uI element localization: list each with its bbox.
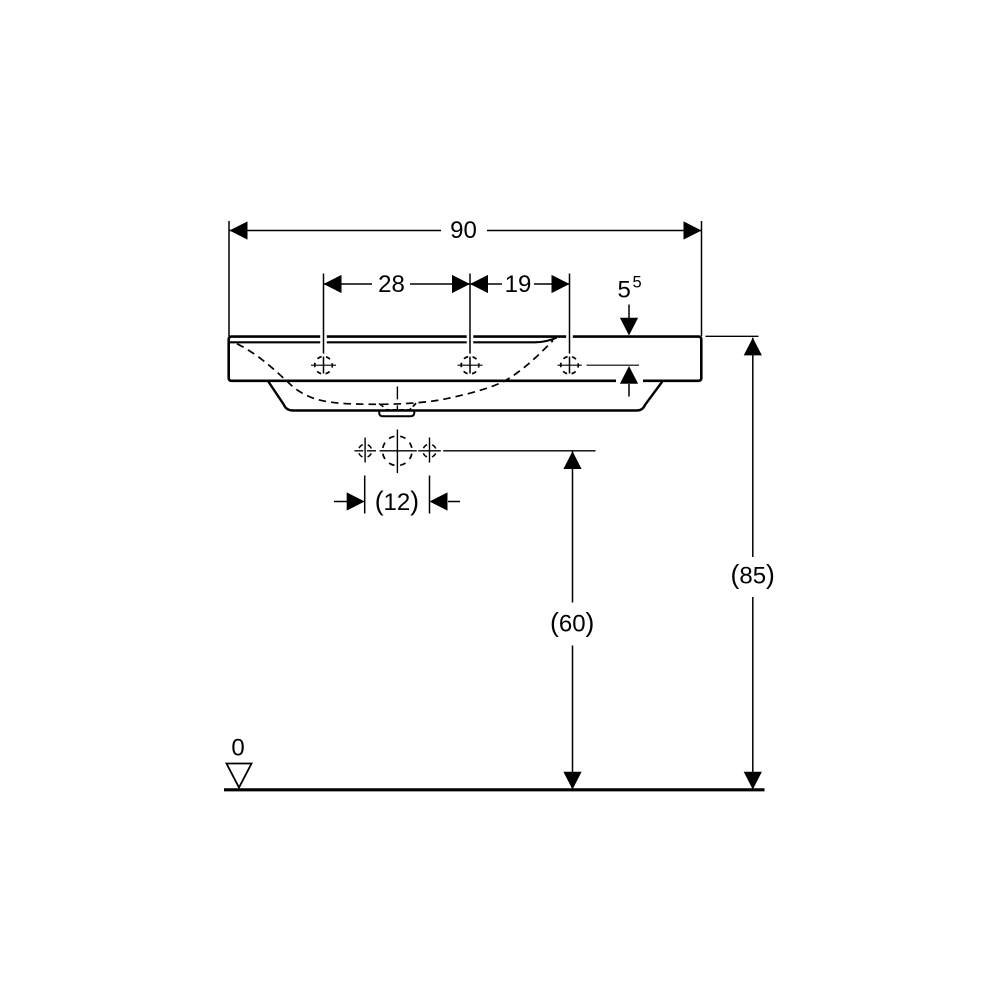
- dim 12 arrow left (points right): [347, 492, 365, 510]
- svg-text:90: 90: [450, 217, 477, 244]
- dim 19 arrow left (at center): [470, 275, 488, 293]
- fixing hole left: [364, 438, 366, 463]
- svg-text:0: 0: [231, 735, 244, 762]
- drain hole symbol circle: [383, 436, 413, 466]
- faucet hole 3 reference line to 5.5 dim: [558, 364, 640, 366]
- halo gaps where extension lines cross rim lines: [320, 335, 573, 344]
- dim 60 line lower: [572, 646, 574, 790]
- dim 85 arrow top: [744, 338, 762, 356]
- dim 12 extension line right: [429, 476, 431, 514]
- svg-text:28: 28: [378, 271, 405, 298]
- drain flange: [379, 411, 414, 416]
- dim 90 arrow right: [684, 221, 702, 239]
- drain dashed sump V: [379, 404, 388, 411]
- svg-text:5: 5: [633, 274, 642, 292]
- dim 5.5 lower arrow (up): [620, 366, 638, 384]
- fixing hole right: [429, 438, 431, 463]
- dim 60 line upper: [572, 451, 574, 602]
- faucet hole 1: [315, 356, 333, 374]
- floor line: [224, 788, 765, 791]
- dim 12 tail left: [334, 501, 347, 503]
- dim 85 reference line top: [706, 335, 759, 337]
- dim 12 extension line left: [364, 476, 366, 514]
- dim 28 arrow left: [324, 275, 342, 293]
- dim 60 arrow top: [563, 451, 581, 469]
- faucet hole 2: [461, 356, 479, 374]
- dim 90 extension line left: [228, 221, 230, 336]
- drain center line (in basin): [396, 387, 398, 410]
- dim 12 tail right: [448, 501, 460, 503]
- svg-text:19: 19: [505, 271, 532, 298]
- dim 60 arrow bottom: [563, 772, 581, 790]
- svg-text:5: 5: [618, 277, 631, 304]
- dim 19 line segments: [470, 283, 502, 285]
- drain horizontal center line to (60): [355, 450, 596, 452]
- dim 85 arrow bottom: [744, 772, 762, 790]
- dim 28 arrow right (at center): [452, 275, 470, 293]
- datum triangle: [227, 764, 252, 788]
- dim 90 line left segment: [230, 230, 442, 232]
- dim 19 extension line right (through hole 3): [569, 274, 571, 374]
- svg-text:(60): (60): [550, 608, 594, 638]
- dim 90 arrow left: [230, 221, 248, 239]
- dim 90 line right segment: [487, 230, 702, 232]
- dim 28 extension line left (through hole 1): [323, 274, 325, 374]
- faucet hole 3: [561, 356, 579, 374]
- basin inner rim edge: [230, 338, 557, 343]
- svg-text:(85): (85): [731, 560, 775, 590]
- dim 28 line segments: [324, 283, 373, 285]
- dim 85 line upper: [752, 338, 754, 557]
- basin bowl dashed curve: [237, 341, 553, 405]
- basin rim outline: [229, 337, 702, 381]
- dim 12 arrow right (points left): [430, 492, 448, 510]
- drain hole vertical center line: [396, 430, 398, 474]
- dim 19 arrow right: [552, 275, 570, 293]
- dim 90 extension line right: [701, 221, 703, 336]
- basin lower body: [268, 382, 662, 411]
- dim 85 line lower: [752, 597, 754, 790]
- svg-text:(12): (12): [375, 486, 419, 516]
- dim 5.5 upper arrow (down): [628, 305, 630, 322]
- dim 28/19 extension line center (through hole 2): [469, 274, 471, 374]
